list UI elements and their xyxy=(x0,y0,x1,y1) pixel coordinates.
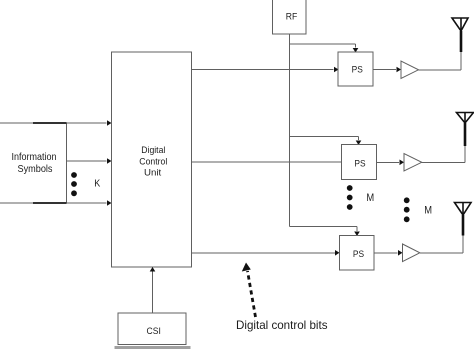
block: Information Symbols xyxy=(0,123,67,203)
amplifier A1 xyxy=(401,61,419,79)
wire: bold overlap segment on info box top edge xyxy=(33,122,67,124)
amplifier A2 xyxy=(404,154,422,172)
svg-text:PS: PS xyxy=(354,158,365,169)
antenna 3 xyxy=(455,203,472,236)
svg-text:RF: RF xyxy=(286,12,298,22)
wire: amplifier A2 to antenna 2 xyxy=(422,145,465,162)
wire: RF branch 3 to PS3 xyxy=(290,227,360,236)
wire: RF branch 2 to PS2 xyxy=(290,137,362,146)
amplifier A3 xyxy=(403,244,420,262)
block: RF xyxy=(273,0,307,34)
wire: PS1 to amplifier with arrow xyxy=(373,67,401,73)
svg-text:PS: PS xyxy=(353,249,364,260)
wire: DCU to PS3 with arrow xyxy=(192,250,340,256)
svg-text:K: K xyxy=(94,178,100,190)
svg-text:Digital control bits: Digital control bits xyxy=(236,318,328,332)
wire: PS2 to amplifier with arrow xyxy=(377,160,405,166)
node: K ellipsis dots xyxy=(71,172,77,196)
svg-text:Unit: Unit xyxy=(144,168,162,179)
svg-text:Information: Information xyxy=(12,152,57,163)
wire: info box to DCU bottom arrow xyxy=(67,200,112,206)
node: M ellipsis dots group 2 xyxy=(404,197,410,222)
block: PS3 xyxy=(340,236,375,271)
scan artifact: gray band below CSI xyxy=(115,346,191,349)
svg-text:Digital: Digital xyxy=(141,145,165,156)
svg-text:PS: PS xyxy=(352,65,363,76)
wire: DCU to PS2 xyxy=(192,161,342,163)
antenna 1 xyxy=(452,18,468,52)
wire: CSI to DCU arrow xyxy=(150,267,156,313)
wire: bold overlap segment on info box bottom edge xyxy=(33,202,67,204)
wire: amplifier A3 to antenna 3 xyxy=(420,235,463,253)
block: Digital Control Unit xyxy=(112,52,192,267)
wire: DCU to PS1 with arrow xyxy=(192,67,339,73)
wire: info box to DCU top arrow xyxy=(67,120,112,126)
node: M ellipsis dots group 1 xyxy=(347,185,353,210)
wire: RF vertical trunk xyxy=(289,34,291,227)
wire: PS3 to amplifier with arrow xyxy=(374,250,403,256)
block: PS2 xyxy=(342,145,377,180)
wire: info box to DCU middle arrow xyxy=(67,158,112,164)
wire: amplifier A1 to antenna 1 xyxy=(419,51,462,70)
svg-text:Symbols: Symbols xyxy=(18,164,53,175)
wire: RF branch 1 to PS1 xyxy=(290,44,359,53)
block: CSI xyxy=(118,313,186,345)
block: PS1 xyxy=(338,52,373,86)
svg-text:Control: Control xyxy=(139,156,167,167)
arrow: dashed digital control bits pointer xyxy=(242,263,256,318)
antenna 2 xyxy=(457,113,474,147)
svg-text:CSI: CSI xyxy=(147,326,161,337)
svg-text:M: M xyxy=(424,205,432,217)
svg-text:M: M xyxy=(366,192,374,204)
